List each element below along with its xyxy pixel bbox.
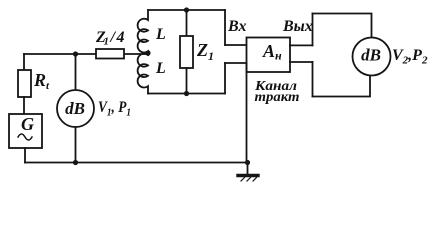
- wire ground lead from An: [246, 63, 248, 163]
- svg-text:G: G: [21, 114, 34, 134]
- wire Z1 branch bottom: [186, 68, 188, 94]
- svg-text:тракт: тракт: [255, 90, 300, 105]
- ground stem: [247, 163, 249, 175]
- wire An output stub bottom: [290, 61, 313, 63]
- node LC top / Z1 junction: [184, 7, 189, 12]
- wire bottom to dB2: [313, 76, 371, 97]
- wire top to dB2: [313, 14, 372, 38]
- sine symbol inside G: [18, 134, 32, 140]
- ground hatch: [241, 178, 257, 182]
- wire LC top: [148, 9, 225, 11]
- svg-text:L: L: [155, 60, 166, 77]
- meter dB V1: [57, 90, 94, 127]
- wire stub to An input bottom: [225, 62, 247, 64]
- svg-text:V1, P1: V1, P1: [98, 99, 131, 119]
- resistor Z1: [180, 36, 193, 68]
- resistor Z1/4: [96, 49, 124, 59]
- svg-text:1: 1: [104, 36, 110, 48]
- wire Z1 branch top: [186, 10, 188, 36]
- wire LC bottom: [148, 93, 225, 95]
- wire right rail upper output: [312, 14, 314, 46]
- node top wire / dB1 junction: [73, 51, 78, 56]
- svg-text:/4: /4: [110, 29, 126, 46]
- svg-text:dB: dB: [65, 99, 85, 118]
- svg-text:Вых: Вых: [282, 18, 313, 35]
- wire G bottom to ground rail: [24, 148, 26, 163]
- block An channel: [247, 38, 291, 73]
- inductor L upper: [138, 10, 148, 55]
- wire right rail lower of LC: [224, 63, 226, 94]
- resistor Rt: [18, 70, 31, 97]
- meter dB V2: [353, 38, 391, 76]
- svg-text:Вх: Вх: [227, 18, 246, 35]
- wire top-left horizontal from Rt corner to coil tap: [24, 53, 148, 55]
- wire bottom ground rail: [25, 162, 248, 164]
- wire dB1 top lead: [75, 54, 77, 90]
- wire An output stub top: [290, 44, 313, 46]
- inductor L lower: [138, 54, 148, 94]
- node LC bottom / Z1 junction: [184, 91, 189, 96]
- ground bar: [238, 174, 258, 177]
- node bottom rail / dB1 junction: [73, 160, 78, 165]
- wire left vertical from top wire to Rt: [23, 54, 25, 70]
- wire right rail upper of LC: [224, 10, 226, 45]
- node bottom rail / ground junction: [245, 160, 250, 165]
- wire stub to An input top: [225, 44, 247, 46]
- wire Rt to G: [23, 97, 25, 114]
- generator G: [9, 114, 42, 148]
- wire right rail lower output: [312, 62, 314, 97]
- svg-text:L: L: [155, 26, 166, 43]
- svg-text:dB: dB: [361, 46, 381, 65]
- wire dB1 bottom lead: [75, 127, 77, 163]
- node coil center tap: [145, 50, 150, 55]
